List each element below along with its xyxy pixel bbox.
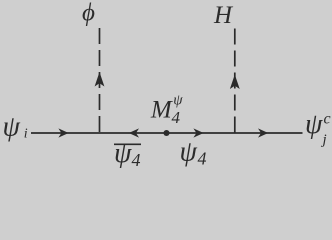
svg-text:M: M [150,96,173,123]
scalar H propagator (dashed) [234,29,236,134]
arrow up on phi line [95,72,105,87]
label psibar_4 overline [114,143,141,145]
arrow right on psi_4 segment [193,128,203,137]
svg-text:4: 4 [198,149,207,169]
node: mass insertion dot [163,130,169,136]
svg-text:ψ: ψ [180,137,198,168]
svg-text:4: 4 [172,108,181,127]
svg-text:H: H [213,2,234,29]
arrow right on psi_j^c segment [258,128,268,137]
arrow up on H line [230,75,240,90]
svg-text:ψ: ψ [173,93,183,109]
svg-text:ϕ: ϕ [82,0,95,27]
scalar phi propagator (dashed) [99,28,101,133]
svg-text:ψ: ψ [305,109,323,140]
wire: main fermion line [31,132,303,134]
svg-text:c: c [324,111,331,128]
svg-text:4: 4 [132,150,141,170]
arrow left on psibar_4 segment [129,128,139,137]
svg-text:i: i [24,126,28,141]
svg-text:ψ: ψ [114,138,132,169]
arrow right on psi_i segment [58,128,68,137]
svg-text:ψ: ψ [3,111,21,142]
